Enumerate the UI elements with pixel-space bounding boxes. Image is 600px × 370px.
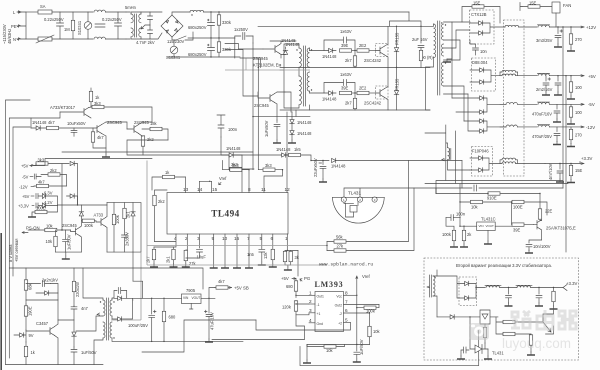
chassis arrow bbox=[141, 25, 150, 29]
svg-text:190E: 190E bbox=[28, 306, 33, 316]
svg-text:7: 7 bbox=[345, 300, 348, 305]
diode D5 bbox=[479, 156, 483, 161]
svg-text:+5V: +5V bbox=[281, 276, 289, 281]
svg-text:VIN: VIN bbox=[479, 224, 484, 228]
svg-text:A733: A733 bbox=[94, 213, 104, 218]
svg-text:1x63V: 1x63V bbox=[340, 72, 352, 77]
svg-text:www.spblan.narod.ru: www.spblan.narod.ru bbox=[319, 262, 373, 268]
routing from comparator block bbox=[133, 281, 143, 300]
svg-text:680: 680 bbox=[169, 315, 177, 320]
trim arrows bbox=[543, 322, 554, 334]
svg-text:3k3: 3k3 bbox=[232, 163, 239, 168]
svg-text:Vref: Vref bbox=[219, 176, 227, 181]
watermark icon bbox=[469, 323, 489, 340]
svg-text:4k7: 4k7 bbox=[38, 180, 45, 185]
bead +12V bbox=[538, 25, 549, 27]
svg-text:39E: 39E bbox=[513, 228, 521, 233]
svg-text:PE: PE bbox=[11, 24, 17, 29]
bead -12V bbox=[538, 125, 549, 127]
svg-text:2k2: 2k2 bbox=[50, 168, 57, 173]
wire +5 down bbox=[565, 76, 567, 252]
svg-text:+2: +2 bbox=[338, 322, 342, 326]
left wires bbox=[212, 295, 309, 339]
svg-text:+1: +1 bbox=[317, 312, 321, 316]
enclosure wires bbox=[300, 331, 479, 366]
capacitor sec top bbox=[118, 288, 126, 299]
wire vertical x141 bbox=[111, 252, 141, 320]
svg-text:2: 2 bbox=[309, 299, 312, 304]
svg-text:2k7: 2k7 bbox=[345, 58, 352, 63]
svg-text:48/63Hz: 48/63Hz bbox=[7, 29, 12, 44]
CM choke bottom winding bbox=[94, 37, 105, 39]
svg-text:2SC945: 2SC945 bbox=[62, 223, 78, 228]
varistor S10241 lower bbox=[170, 46, 178, 54]
svg-text:100: 100 bbox=[575, 110, 583, 115]
svg-text:TL494: TL494 bbox=[211, 209, 240, 219]
svg-text:PG: PG bbox=[304, 276, 311, 281]
svg-text:2SC4242: 2SC4242 bbox=[364, 101, 382, 106]
pin 3 circle bbox=[372, 197, 377, 202]
svg-text:1x250V: 1x250V bbox=[234, 27, 248, 32]
svg-text:330k: 330k bbox=[222, 20, 232, 25]
svg-text:2x350V: 2x350V bbox=[125, 232, 130, 246]
diode sec 2 bbox=[118, 317, 122, 322]
bottom rail bbox=[280, 109, 430, 111]
diode -12V a bbox=[480, 119, 484, 124]
svg-text:15: 15 bbox=[212, 187, 218, 192]
svg-text:9: 9 bbox=[212, 236, 215, 241]
ground bbox=[319, 179, 327, 182]
svg-text:56k: 56k bbox=[336, 235, 344, 240]
choke 1 bbox=[486, 286, 500, 288]
svg-text:2E2: 2E2 bbox=[359, 43, 367, 48]
enclosure wires bbox=[56, 252, 82, 256]
choke +3.3V bbox=[502, 162, 516, 164]
ground bbox=[170, 264, 178, 267]
dashed enclosure bbox=[424, 258, 579, 360]
svg-text:10n/100V: 10n/100V bbox=[533, 244, 551, 249]
svg-text:2SC4242: 2SC4242 bbox=[364, 58, 382, 63]
FAN connector bbox=[552, 2, 560, 13]
transformer winding bbox=[433, 276, 435, 296]
svg-text:10n: 10n bbox=[480, 49, 488, 54]
wire bus b bbox=[9, 118, 31, 358]
svg-text:SA: SA bbox=[40, 4, 46, 9]
scan edge artifact bbox=[0, 233, 2, 370]
svg-text:2E2: 2E2 bbox=[359, 86, 367, 91]
svg-text:15E: 15E bbox=[575, 168, 583, 173]
svg-text:10k: 10k bbox=[471, 205, 479, 210]
zener bbox=[72, 332, 77, 336]
ground bbox=[150, 264, 158, 267]
diode -5V a bbox=[480, 96, 484, 101]
sense resistors right bbox=[503, 320, 515, 323]
svg-text:-5V: -5V bbox=[22, 175, 29, 180]
svg-text:4.7nF 2kV: 4.7nF 2kV bbox=[136, 40, 155, 45]
junction wires bbox=[326, 242, 328, 251]
mid node wire bbox=[188, 37, 235, 39]
svg-text:3: 3 bbox=[309, 308, 312, 313]
bridge rectifier bbox=[161, 15, 183, 37]
transformer T1 bbox=[299, 48, 301, 67]
wire L bbox=[26, 11, 38, 13]
diode on +5V row bbox=[70, 161, 74, 166]
svg-text:-2: -2 bbox=[339, 312, 342, 316]
wire bbox=[52, 11, 93, 13]
resistor 3k a bbox=[283, 251, 286, 261]
ground bbox=[28, 214, 36, 217]
wire vertical x147 bbox=[147, 161, 327, 266]
capacitor bottom a bbox=[461, 347, 469, 356]
svg-text:LM393: LM393 bbox=[315, 280, 344, 289]
diode b bbox=[465, 296, 469, 301]
svg-text:100: 100 bbox=[575, 85, 583, 90]
tee bar bbox=[520, 3, 522, 11]
wire long rail y158.5 bbox=[34, 159, 152, 166]
choke -12V bbox=[506, 125, 517, 127]
svg-text:39E: 39E bbox=[341, 43, 349, 48]
top rail bbox=[253, 26, 421, 43]
rail from bulk bbox=[390, 12, 422, 26]
wire +12 down bbox=[562, 27, 564, 188]
choke +12V bbox=[505, 25, 519, 27]
svg-text:+5V: +5V bbox=[588, 74, 596, 79]
svg-text:-12V: -12V bbox=[19, 185, 28, 190]
mid rail bbox=[280, 67, 430, 69]
+ rail wire bbox=[204, 11, 409, 13]
svg-text:2k2: 2k2 bbox=[147, 137, 154, 142]
ground left bbox=[306, 345, 308, 361]
svg-text:18k: 18k bbox=[150, 121, 158, 126]
cap bottom gnd bbox=[487, 349, 489, 356]
svg-text:D88.004: D88.004 bbox=[472, 60, 488, 65]
svg-text:TL431C: TL431C bbox=[481, 217, 496, 222]
lower drive diode bbox=[450, 315, 454, 320]
svg-text:1uFx50V: 1uFx50V bbox=[264, 120, 269, 137]
watermark characters bbox=[511, 310, 576, 329]
wire bbox=[105, 12, 126, 39]
svg-text:8: 8 bbox=[248, 187, 251, 192]
wire bridge top to rail bbox=[172, 12, 190, 15]
ground bbox=[102, 154, 110, 157]
svg-text:100E: 100E bbox=[36, 206, 46, 211]
svg-text:8 V шина: 8 V шина bbox=[8, 244, 13, 262]
transformer T3 primary bbox=[434, 24, 436, 58]
rectifier CTX12B bbox=[470, 10, 495, 44]
svg-text:470uF/25V: 470uF/25V bbox=[532, 134, 552, 139]
nested corner wires bbox=[225, 44, 263, 97]
inner die bbox=[350, 206, 357, 213]
wire bus c bbox=[13, 127, 30, 276]
svg-text:12k: 12k bbox=[263, 251, 268, 259]
ground bbox=[273, 140, 281, 143]
choke 2 bbox=[517, 286, 531, 288]
svg-text:-12V: -12V bbox=[586, 125, 595, 130]
top wire with capacitor bbox=[344, 185, 563, 197]
rectifier D88.004 bbox=[472, 58, 496, 91]
svg-text:VOUT: VOUT bbox=[192, 296, 201, 300]
CM choke top winding bbox=[94, 10, 105, 12]
T2 secondary wires bbox=[112, 291, 117, 301]
svg-text:270: 270 bbox=[575, 133, 583, 138]
center tap ground bbox=[447, 48, 452, 59]
diode D1 bbox=[479, 21, 483, 26]
diode sec 1 bbox=[118, 296, 122, 301]
svg-text:4k7: 4k7 bbox=[48, 120, 55, 125]
wire long rail bbox=[127, 140, 281, 155]
wire bbox=[285, 92, 292, 112]
svg-text:680x250V: 680x250V bbox=[188, 25, 207, 30]
svg-text:3k3: 3k3 bbox=[265, 163, 272, 168]
svg-text:13: 13 bbox=[183, 187, 189, 192]
svg-text:8: 8 bbox=[345, 291, 348, 296]
svg-text:10k: 10k bbox=[46, 224, 54, 229]
svg-text:4k7: 4k7 bbox=[218, 279, 225, 284]
svg-text:4m7/10V: 4m7/10V bbox=[548, 163, 553, 180]
bottom wire bbox=[307, 344, 370, 346]
wire bbox=[141, 12, 162, 39]
ground bbox=[288, 140, 296, 143]
svg-text:680: 680 bbox=[286, 284, 294, 289]
svg-text:3m3/25V: 3m3/25V bbox=[536, 38, 553, 43]
capacitor 4.7nF second bbox=[148, 25, 153, 39]
svg-text:4k7: 4k7 bbox=[97, 135, 104, 140]
svg-text:A733/KT3017: A733/KT3017 bbox=[50, 105, 76, 110]
svg-text:10uF: 10uF bbox=[197, 255, 207, 260]
svg-text:1N4148: 1N4148 bbox=[331, 164, 346, 169]
svg-text:5mHn: 5mHn bbox=[125, 5, 137, 10]
pin5 loop bbox=[256, 320, 350, 330]
diode a bbox=[465, 281, 469, 286]
svg-text:Out1: Out1 bbox=[317, 295, 324, 299]
svg-text:7905: 7905 bbox=[186, 288, 196, 293]
wire long rail y152 bbox=[62, 151, 253, 153]
svg-text:2k7: 2k7 bbox=[146, 256, 151, 263]
diode D6 bbox=[479, 168, 483, 173]
svg-text:1N4148: 1N4148 bbox=[322, 97, 337, 102]
svg-text:39E: 39E bbox=[341, 86, 349, 91]
choke core bbox=[95, 24, 105, 27]
diode right of rows bbox=[70, 194, 74, 199]
svg-text:1k5: 1k5 bbox=[294, 147, 301, 152]
minus rail wire bbox=[168, 56, 240, 58]
T2 phase arrow bbox=[97, 313, 100, 315]
diode -12V b bbox=[480, 129, 484, 134]
junction dots bbox=[210, 11, 211, 12]
svg-text:2uF 16V: 2uF 16V bbox=[412, 37, 428, 42]
svg-text:+5V: +5V bbox=[22, 194, 30, 199]
svg-text:100k: 100k bbox=[84, 223, 94, 228]
capacitor mid bbox=[506, 288, 512, 304]
wire to LM393 area bbox=[297, 251, 299, 277]
svg-text:Второй вариант реализации 3.3V: Второй вариант реализации 3.3V стабилиза… bbox=[456, 263, 552, 268]
svg-text:2SC945: 2SC945 bbox=[253, 56, 269, 61]
TL431 body bbox=[332, 197, 384, 223]
svg-text:2m2/16V: 2m2/16V bbox=[536, 87, 553, 92]
block wires bbox=[107, 203, 133, 253]
bead -5V bbox=[538, 102, 549, 104]
svg-text:F10P046: F10P046 bbox=[472, 149, 489, 154]
svg-text:6: 6 bbox=[345, 308, 348, 313]
svg-text:Out2: Out2 bbox=[335, 304, 342, 308]
svg-text:1N4148: 1N4148 bbox=[297, 131, 312, 136]
svg-text:TL431: TL431 bbox=[492, 351, 504, 356]
bottom rail wire bbox=[6, 364, 104, 366]
svg-text:910E: 910E bbox=[487, 196, 497, 201]
T1 left wires bbox=[280, 44, 299, 108]
left feed wires bbox=[436, 184, 460, 202]
svg-text:TL431: TL431 bbox=[348, 191, 361, 196]
choke +5V bbox=[500, 75, 502, 77]
svg-text:1n5: 1n5 bbox=[247, 252, 255, 257]
svg-text:270: 270 bbox=[575, 37, 583, 42]
svg-text:1N4148: 1N4148 bbox=[276, 147, 291, 152]
svg-text:KT3102EM, Ем: KT3102EM, Ем bbox=[253, 63, 281, 68]
svg-text:22E: 22E bbox=[545, 209, 553, 214]
diode D2 bbox=[479, 31, 483, 36]
svg-text:2SA/KT3107Б,Е: 2SA/KT3107Б,Е bbox=[546, 226, 576, 231]
wire bbox=[106, 122, 152, 129]
svg-text:Vcc: Vcc bbox=[336, 295, 342, 299]
thermistor t bbox=[38, 37, 52, 41]
svg-text:2k1: 2k1 bbox=[166, 256, 171, 263]
svg-text:1uF/50V: 1uF/50V bbox=[359, 339, 364, 355]
T3 primary wires bbox=[421, 24, 434, 110]
svg-text:+5V: +5V bbox=[21, 164, 29, 169]
svg-text:470uF/16V: 470uF/16V bbox=[532, 112, 552, 117]
diode above Q bbox=[79, 212, 84, 216]
svg-text:100n: 100n bbox=[456, 212, 466, 217]
svg-text:10uFx50V: 10uFx50V bbox=[67, 121, 86, 126]
svg-text:4: 4 bbox=[309, 318, 312, 323]
top rail wire bbox=[9, 268, 203, 289]
svg-text:11: 11 bbox=[261, 187, 266, 192]
svg-text:FAN: FAN bbox=[563, 3, 571, 8]
gray crossing wire bbox=[225, 59, 310, 71]
svg-text:680x250V: 680x250V bbox=[188, 52, 207, 57]
svg-text:-1: -1 bbox=[317, 303, 320, 307]
svg-text:1uF/50V: 1uF/50V bbox=[67, 234, 72, 250]
svg-text:27k: 27k bbox=[337, 244, 345, 249]
resistor below bbox=[483, 327, 486, 337]
svg-text:2SC945: 2SC945 bbox=[107, 120, 123, 125]
wire bbox=[31, 112, 60, 128]
svg-text:FR155: FR155 bbox=[395, 78, 400, 91]
diode -5V b bbox=[480, 110, 484, 115]
svg-text:0.22x250V: 0.22x250V bbox=[102, 17, 122, 22]
svg-text:22uFx50V: 22uFx50V bbox=[313, 158, 318, 177]
svg-text:10k: 10k bbox=[373, 329, 381, 334]
svg-text:9V: 9V bbox=[29, 333, 34, 338]
svg-text:100k: 100k bbox=[442, 232, 452, 237]
svg-text:100n: 100n bbox=[228, 127, 238, 132]
thyristor TL431 pair bbox=[470, 310, 498, 324]
svg-text:S10241: S10241 bbox=[77, 20, 82, 35]
svg-text:0.22x250V: 0.22x250V bbox=[44, 17, 64, 22]
svg-text:10k: 10k bbox=[326, 348, 334, 353]
bead +5V bbox=[538, 74, 549, 76]
transformer T2 bbox=[103, 300, 105, 316]
wire to +5V SB bbox=[209, 288, 215, 299]
input bus wire bbox=[21, 12, 26, 39]
svg-text:1N4148: 1N4148 bbox=[226, 146, 241, 151]
svg-text:+5V SB: +5V SB bbox=[234, 286, 249, 291]
svg-text:VOUT: VOUT bbox=[486, 224, 495, 228]
svg-text:7: 7 bbox=[247, 236, 250, 241]
svg-text:100E: 100E bbox=[513, 205, 523, 210]
transformer T3 secondary bbox=[442, 24, 444, 40]
svg-text:+3,3V: +3,3V bbox=[18, 204, 29, 209]
magamp choke bbox=[448, 148, 450, 160]
rectifier dashed box bbox=[459, 277, 477, 306]
wire bus a bbox=[6, 100, 31, 365]
choke -5V bbox=[506, 102, 517, 104]
op-amp U2 LM393 box bbox=[315, 292, 344, 332]
svg-text:2k2: 2k2 bbox=[158, 199, 165, 204]
T3 secondary tap wires bbox=[444, 22, 471, 121]
svg-text:1M: 1M bbox=[64, 27, 70, 32]
svg-text:luyouq.com: luyouq.com bbox=[502, 336, 571, 351]
svg-text:S10241: S10241 bbox=[166, 55, 181, 60]
svg-text:1x63V: 1x63V bbox=[340, 29, 352, 34]
svg-text:4n7: 4n7 bbox=[81, 306, 89, 311]
wire bbox=[26, 293, 58, 304]
inductor on + rail bbox=[190, 10, 204, 12]
svg-text:+5V сетевая: +5V сетевая bbox=[14, 239, 19, 262]
op-amp U1 TL494 box bbox=[167, 193, 288, 235]
T1 right wires bbox=[309, 48, 311, 110]
wire vertical x132 bbox=[132, 252, 134, 281]
T1 return rail bbox=[253, 110, 310, 117]
svg-text:+12V: +12V bbox=[586, 25, 596, 30]
wire N bbox=[26, 38, 93, 40]
svg-text:1: 1 bbox=[309, 291, 312, 296]
wire vertical mid bbox=[253, 43, 258, 170]
svg-text:1N4148: 1N4148 bbox=[285, 42, 300, 47]
svg-text:100uF/25V: 100uF/25V bbox=[128, 323, 148, 328]
T2 sec bottom wire bbox=[112, 338, 243, 341]
svg-text:VIN: VIN bbox=[183, 296, 189, 300]
diode D3 bbox=[480, 68, 484, 73]
diode bbox=[45, 291, 49, 296]
svg-text:Vref: Vref bbox=[362, 274, 371, 279]
capacitor right bbox=[536, 288, 542, 304]
choke dashed box bbox=[504, 20, 525, 176]
svg-text:2k7: 2k7 bbox=[345, 101, 352, 106]
svg-text:5: 5 bbox=[345, 318, 348, 323]
svg-text:-5V: -5V bbox=[588, 102, 595, 107]
svg-text:10k: 10k bbox=[46, 239, 54, 244]
T2 primary wires bbox=[76, 268, 103, 365]
svg-text:+3.3V: +3.3V bbox=[581, 156, 592, 161]
svg-text:1N4148: 1N4148 bbox=[322, 54, 337, 59]
diode D4 bbox=[480, 80, 484, 85]
resistor load bbox=[552, 291, 555, 301]
svg-text:+3.3V: +3.3V bbox=[566, 281, 577, 286]
svg-text:FR155: FR155 bbox=[395, 32, 400, 45]
svg-text:1uF/50V: 1uF/50V bbox=[81, 350, 97, 355]
rectifier F10P046 bbox=[472, 147, 493, 177]
svg-text:1N4148: 1N4148 bbox=[32, 120, 47, 125]
svg-text:Gnd: Gnd bbox=[317, 322, 324, 326]
svg-text:C3457: C3457 bbox=[36, 321, 49, 326]
svg-text:N: N bbox=[13, 37, 16, 42]
svg-text:CTX12B: CTX12B bbox=[471, 12, 487, 17]
resistor vert right bbox=[529, 335, 532, 345]
wire from ladder diodes bbox=[78, 204, 108, 206]
svg-text:4: 4 bbox=[174, 236, 177, 241]
svg-text:120k: 120k bbox=[282, 305, 292, 310]
